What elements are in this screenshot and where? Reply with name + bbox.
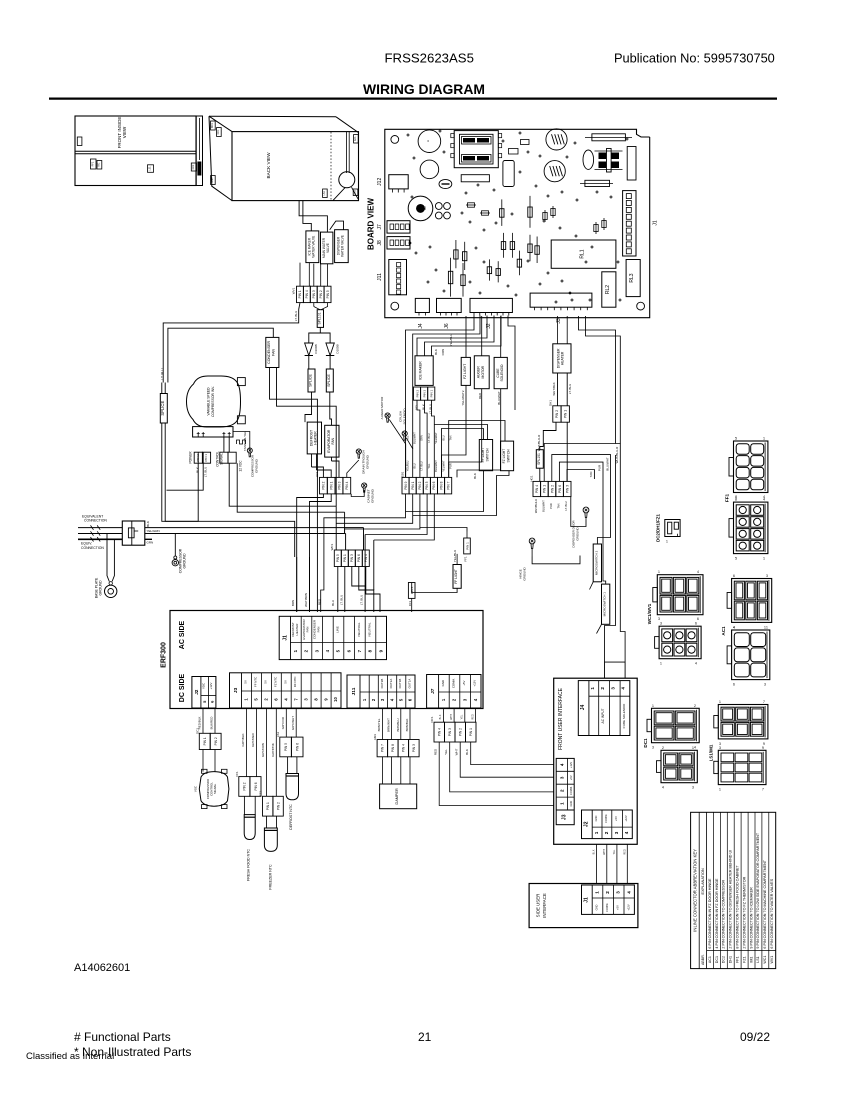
wires LD1 down [297, 494, 324, 612]
svg-text:1: 1 [666, 540, 668, 544]
base plate ground wires [107, 534, 109, 582]
svg-text:LS1: LS1 [756, 956, 760, 962]
light switch top wires [442, 429, 484, 478]
svg-text:HEATER: HEATER [561, 351, 565, 365]
svg-text:WV1: WV1 [211, 177, 214, 183]
FUI connector J2 table [582, 810, 633, 839]
svg-text:2: 2 [662, 746, 664, 750]
svg-text:PIN 2: PIN 2 [214, 737, 218, 745]
svg-text:TAN: TAN [589, 472, 593, 478]
svg-text:PIN 1: PIN 1 [465, 542, 469, 550]
ERF300 connector J7 table [427, 675, 481, 709]
svg-text:LT. BLU: LT. BLU [340, 595, 344, 605]
svg-text:PIN 2: PIN 2 [243, 782, 247, 790]
wires splices down [305, 392, 312, 422]
svg-text:PIN 4: PIN 4 [438, 728, 442, 736]
wires FUI to SUI [596, 844, 598, 883]
svg-text:2 PIN CONNECTION TO COMPRESSOR: 2 PIN CONNECTION TO COMPRESSOR [722, 880, 726, 949]
fresh food ntc wires [243, 796, 245, 814]
svg-text:ERF300: ERF300 [161, 642, 168, 668]
svg-text:DC SIDE: DC SIDE [179, 673, 186, 702]
svg-text:POWER: POWER [189, 451, 193, 464]
svg-text:AC SIDE: AC SIDE [179, 620, 186, 649]
svg-text:ORN: ORN [420, 435, 424, 441]
wires heater to LD1 [311, 454, 313, 467]
inline connector WC1/WV1 lower [659, 626, 701, 659]
svg-text:DC2: DC2 [195, 728, 199, 734]
svg-text:5V: 5V [244, 680, 248, 684]
svg-text:1: 1 [763, 437, 765, 441]
svg-text:2 PIN CONNECTION TO DISPENSER: 2 PIN CONNECTION TO DISPENSER HEATER BEH… [729, 850, 733, 949]
svg-text:COMPRESSOR INV.: COMPRESSOR INV. [211, 386, 215, 417]
svg-text:1: 1 [719, 788, 721, 792]
svg-text:4: 4 [733, 626, 735, 630]
svg-text:AC INPUT: AC INPUT [601, 709, 605, 724]
svg-text:FAN: FAN [272, 349, 276, 356]
svg-text:VALVE: VALVE [326, 243, 330, 253]
svg-text:J2: J2 [584, 821, 590, 827]
ff light wires [456, 554, 458, 565]
resistor pack [461, 175, 489, 182]
svg-text:PIN 6: PIN 6 [357, 554, 361, 562]
svg-text:FF1: FF1 [736, 956, 740, 962]
svg-text:YEL: YEL [427, 463, 431, 468]
svg-text:GRY/BLK: GRY/BLK [241, 734, 245, 747]
svg-text:GROUND: GROUND [370, 488, 374, 503]
svg-text:J4: J4 [580, 705, 586, 711]
svg-text:LT. BLU: LT. BLU [204, 467, 208, 477]
svg-text:WC1: WC1 [763, 956, 767, 964]
capacitor C8 [627, 147, 636, 181]
svg-text:3: 3 [560, 776, 565, 779]
water valve bottom wires [308, 263, 310, 287]
svg-text:4: 4 [695, 662, 697, 666]
svg-text:TAN: TAN [557, 503, 561, 508]
board extra parts [509, 149, 519, 155]
svg-text:J7: J7 [377, 224, 383, 230]
ff light switch [479, 440, 492, 471]
side user interface box [529, 884, 638, 928]
svg-text:PIN 1: PIN 1 [564, 410, 568, 418]
svg-text:OUT2B: OUT2B [380, 679, 384, 689]
splice SP2 [308, 369, 315, 392]
back view connector WC1 [211, 121, 216, 130]
svg-text:PIN 6: PIN 6 [558, 485, 562, 493]
svg-text:DISPENSER: DISPENSER [556, 348, 560, 368]
wires J3 to freezer ntc [265, 709, 267, 797]
board view outline [385, 129, 650, 317]
wires J3 down to EB1 right [508, 316, 515, 411]
svg-text:1: 1 [764, 626, 766, 630]
svg-text:RL3: RL3 [629, 273, 635, 282]
condenser fan wires down [270, 368, 318, 613]
svg-text:8 PIN CONNECTION TO FRESH FOOD: 8 PIN CONNECTION TO FRESH FOOD CABINET [736, 865, 740, 949]
svg-text:RL1: RL1 [580, 249, 586, 258]
svg-text:GND: GND [441, 680, 445, 686]
svg-text:BLK: BLK [593, 849, 596, 854]
svg-text:FAN: FAN [306, 627, 310, 633]
splice SP4 [536, 450, 543, 469]
svg-text:2: 2 [560, 789, 565, 792]
svg-text:INTERFACE: INTERFACE [542, 893, 547, 918]
svg-text:FZ1: FZ1 [742, 956, 746, 962]
relay RL3 [626, 260, 640, 297]
svg-text:PIN 4: PIN 4 [535, 485, 539, 493]
svg-text:4: 4 [697, 570, 699, 574]
connector J6 on board [437, 298, 462, 312]
svg-text:PIN 3: PIN 3 [350, 554, 354, 562]
main water valve [321, 232, 333, 264]
svg-text:IM1: IM1 [98, 162, 101, 167]
svg-text:A14062601: A14062601 [74, 962, 130, 974]
crush solenoid ground [402, 431, 407, 436]
svg-text:6 PIN CONNECTION IN FZ DOOR HI: 6 PIN CONNECTION IN FZ DOOR HINGE [708, 878, 712, 949]
freezer ntc wires [266, 816, 268, 828]
svg-text:YEL/WHT: YEL/WHT [434, 432, 438, 444]
svg-text:ICE MAKER: ICE MAKER [419, 361, 423, 380]
wire fz light to EB1 [442, 385, 467, 477]
evaporator fan [325, 425, 339, 457]
svg-text:1: 1 [660, 662, 662, 666]
svg-text:PIN 2: PIN 2 [459, 728, 463, 736]
svg-text:YEL/GRN: YEL/GRN [147, 529, 160, 533]
wire DH1 pin2 down [540, 422, 556, 450]
electrolytic capacitor C6 [544, 161, 565, 182]
svg-text:J1: J1 [282, 635, 288, 641]
svg-text:LS1: LS1 [149, 166, 152, 171]
wires J3 to defrost ntc [285, 709, 287, 738]
svg-text:6: 6 [733, 574, 735, 578]
svg-text:NEUTRAL: NEUTRAL [368, 622, 372, 636]
svg-text:PIN 2: PIN 2 [319, 290, 323, 298]
svg-text:RED: RED [434, 748, 438, 755]
svg-text:FAN: FAN [316, 627, 320, 633]
svg-text:FZ NTC: FZ NTC [273, 677, 277, 687]
svg-text:FZ1: FZ1 [259, 791, 263, 797]
svg-text:+12V: +12V [569, 762, 573, 768]
svg-text:RED: RED [623, 849, 626, 854]
wires ice maker pins to EB1 [417, 400, 420, 477]
svg-text:1: 1 [595, 891, 600, 894]
svg-text:FAN: FAN [331, 437, 335, 444]
svg-text:9: 9 [762, 746, 764, 750]
front view connector FF1 [91, 159, 97, 169]
svg-text:BLU/WHT: BLU/WHT [434, 460, 438, 472]
electrolytic capacitor C5 [546, 129, 567, 150]
svg-text:DH1: DH1 [549, 400, 553, 406]
svg-text:1: 1 [719, 700, 721, 704]
svg-text:PIN 4: PIN 4 [345, 481, 349, 489]
svg-text:D100B: D100B [336, 344, 340, 353]
ERF300 connector J3 table [230, 673, 342, 708]
svg-text:BLU/WHT: BLU/WHT [541, 500, 545, 512]
relay RL1 [551, 240, 616, 268]
svg-text:PIN 1: PIN 1 [266, 802, 270, 810]
drain trough ground [356, 449, 361, 454]
wires DC2 to VSC [202, 750, 204, 772]
fridge back view outline [209, 115, 336, 118]
svg-text:FF1: FF1 [235, 771, 239, 777]
ground leader lines [389, 420, 405, 478]
wires EB1 down to ERF300 [321, 494, 406, 612]
svg-text:J3: J3 [562, 814, 568, 820]
fui top stub [605, 662, 626, 678]
svg-text:OUT2A: OUT2A [389, 679, 393, 689]
svg-text:CUBE SOLENOID: CUBE SOLENOID [622, 703, 626, 729]
svg-text:EXPLANATION: EXPLANATION [701, 868, 705, 895]
svg-text:RED: RED [471, 714, 474, 719]
wires lights up to board [465, 316, 467, 357]
svg-text:AC1: AC1 [354, 136, 357, 141]
svg-text:+12V: +12V [209, 683, 213, 690]
svg-text:YEL/BLU: YEL/BLU [449, 334, 453, 346]
inductor L1 [607, 149, 612, 173]
svg-text:YEL/BLU: YEL/BLU [405, 461, 409, 472]
fridge front inside view outline [75, 116, 196, 186]
svg-text:YEL: YEL [444, 749, 448, 755]
svg-text:VARIABLE SPEED: VARIABLE SPEED [207, 387, 211, 416]
svg-text:BRN/YEL: BRN/YEL [377, 718, 381, 731]
svg-text:RL2: RL2 [605, 285, 611, 294]
svg-text:J12: J12 [377, 178, 383, 186]
wire auger to EB1 [449, 389, 482, 478]
svg-text:FRONT USER INTERFACE: FRONT USER INTERFACE [558, 687, 564, 750]
svg-text:4 PIN CONNECTION IN FZ DOOR HI: 4 PIN CONNECTION IN FZ DOOR HINGE [715, 878, 719, 949]
resistor R2 [580, 183, 613, 185]
svg-text:BLU/WHT: BLU/WHT [606, 457, 610, 471]
svg-text:LS1: LS1 [323, 190, 326, 195]
svg-text:OUT1B: OUT1B [398, 679, 402, 689]
connector J7 on board [387, 221, 410, 233]
transformer T1 [454, 131, 498, 168]
svg-text:1: 1 [692, 746, 694, 750]
ice maker pins [414, 387, 421, 400]
svg-text:ABBR.: ABBR. [701, 954, 705, 965]
board test point dots [407, 134, 409, 136]
cube solenoid [494, 357, 507, 388]
svg-text:J2: J2 [194, 689, 199, 695]
svg-text:YEL/BLK: YEL/BLK [453, 550, 457, 562]
svg-text:1: 1 [766, 625, 768, 629]
damper [380, 784, 417, 809]
svg-text:9 PIN CONNECTION TO LOW SIDE E: 9 PIN CONNECTION TO LOW SIDE EVAPORATOR … [756, 832, 760, 948]
svg-text:LD1: LD1 [315, 471, 319, 477]
svg-text:4: 4 [763, 498, 765, 502]
svg-text:OUT1A: OUT1A [407, 679, 411, 689]
svg-text:FF1: FF1 [91, 161, 95, 166]
svg-text:PIN 6: PIN 6 [432, 481, 436, 489]
svg-text:J6: J6 [444, 323, 450, 329]
svg-text:PIN 8: PIN 8 [391, 744, 395, 752]
defrost ntc wires [287, 757, 289, 774]
svg-text:PIN 5: PIN 5 [284, 743, 288, 751]
microswitch 1 [602, 584, 610, 624]
svg-text:RED/BLK: RED/BLK [198, 717, 202, 730]
svg-text:SIGNAL: SIGNAL [213, 783, 217, 794]
freezer ntc [264, 828, 277, 851]
svg-text:FRSS2623AS5: FRSS2623AS5 [385, 51, 474, 66]
svg-text:FF1: FF1 [464, 556, 468, 562]
front view connector LS1 [148, 165, 154, 173]
svg-text:HG1: HG1 [529, 475, 533, 482]
back view double line [346, 132, 348, 173]
wire cube solenoid down [457, 389, 501, 478]
svg-text:BLK: BLK [196, 467, 200, 473]
FUI connector J4 table [578, 681, 630, 736]
svg-text:J8: J8 [377, 240, 383, 246]
wires J3 to fresh food ntc [246, 709, 248, 777]
svg-text:HEATER: HEATER [295, 623, 299, 636]
capacitor C1 [418, 130, 441, 153]
dc1 stair wires to FUI J3 [471, 742, 554, 765]
wires J2 J3 down to EB1 [406, 316, 475, 478]
svg-text:LT. BLU: LT. BLU [294, 311, 298, 321]
svg-text:WC1: WC1 [211, 122, 214, 128]
svg-text:PIN 6: PIN 6 [254, 782, 258, 790]
svg-text:PIN 3: PIN 3 [448, 728, 452, 736]
svg-text:+5V: +5V [569, 775, 573, 780]
svg-text:FF LIGHT: FF LIGHT [454, 569, 458, 584]
svg-text:AC1: AC1 [721, 626, 726, 636]
buzzer [408, 196, 433, 221]
fresh food ntc [244, 815, 255, 840]
wires board J3 to right bundle [579, 316, 616, 444]
svg-text:WATER VALVE: WATER VALVE [341, 235, 345, 257]
svg-text:DC1: DC1 [430, 716, 434, 722]
svg-text:5: 5 [735, 437, 737, 441]
inline connector LS1/IM1 upper [718, 705, 768, 739]
svg-text:SPL101: SPL101 [537, 453, 541, 465]
svg-text:PUR: PUR [549, 503, 553, 509]
svg-text:WHT/BLK: WHT/BLK [552, 382, 556, 395]
light switch bottom wires [406, 471, 484, 512]
inline connector FF1 upper [734, 441, 768, 493]
svg-text:BLU: BLU [413, 463, 417, 468]
compressor inverter tabs [237, 378, 245, 386]
svg-text:PIN 2: PIN 2 [322, 481, 326, 489]
svg-text:VDC: VDC [202, 683, 206, 689]
svg-text:Publication No: 5995730750: Publication No: 5995730750 [614, 51, 775, 66]
capacitor C4 [503, 161, 514, 187]
wires to diodes [309, 327, 321, 342]
inline connector LS1/IM1 lower [718, 750, 766, 784]
svg-text:LT. BLU: LT. BLU [420, 461, 424, 470]
wire to compressor ground [174, 534, 176, 557]
connector J11 on board [389, 260, 407, 295]
compressor ground lug [174, 556, 177, 559]
svg-text:+5V: +5V [616, 905, 620, 910]
svg-text:6: 6 [733, 683, 735, 687]
ff light bottom wire [412, 583, 457, 593]
svg-text:PIN 3: PIN 3 [566, 485, 570, 493]
back view connector AC1 [354, 135, 359, 144]
ff1 pin 1 [464, 538, 471, 554]
svg-text:WC1: WC1 [330, 543, 334, 550]
compressor terminal box [193, 427, 233, 437]
svg-text:PIN 1: PIN 1 [330, 481, 334, 489]
svg-text:YEL: YEL [613, 849, 616, 854]
svg-text:CONNECTION: CONNECTION [84, 519, 107, 523]
svg-text:YEL: YEL [461, 714, 464, 719]
svg-text:CONDENSER: CONDENSER [267, 341, 271, 364]
svg-text:PIN 7: PIN 7 [381, 744, 385, 752]
dispenser heater wires [557, 316, 559, 344]
svg-text:INLINE CONNECTOR ABBREVIATION: INLINE CONNECTOR ABBREVIATION KEY [692, 849, 697, 932]
svg-text:DC2: DC2 [192, 164, 195, 169]
svg-text:J11: J11 [377, 273, 383, 281]
svg-text:GROUND: GROUND [99, 580, 103, 596]
connector J12 on board [389, 175, 408, 189]
splice SP3 [326, 369, 333, 392]
svg-text:GND: GND [569, 801, 573, 807]
dispenser heater [553, 344, 571, 373]
svg-text:SWITCH: SWITCH [485, 448, 489, 462]
svg-text:PIN 1: PIN 1 [343, 554, 347, 562]
fz light switch [501, 441, 514, 471]
svg-text:GRY/WHT: GRY/WHT [291, 716, 295, 730]
svg-text:PIN 5: PIN 5 [336, 554, 340, 562]
capacitor C3 [439, 179, 452, 188]
connector J8 on board [387, 237, 410, 249]
svg-text:5: 5 [735, 556, 737, 560]
svg-text:BLK: BLK [434, 349, 438, 355]
svg-text:MOTOR: MOTOR [481, 365, 485, 378]
svg-text:1: 1 [594, 831, 599, 834]
svg-text:SPLICE: SPLICE [327, 374, 331, 387]
auger motor ground [385, 413, 390, 418]
svg-text:GND: GND [594, 815, 598, 821]
svg-text:FRESH FOOD NTC: FRESH FOOD NTC [247, 849, 251, 881]
svg-text:BLK/RED: BLK/RED [210, 716, 214, 730]
svg-text:CONNECTION: CONNECTION [81, 546, 104, 550]
ff light [453, 565, 461, 589]
svg-text:3: 3 [652, 746, 654, 750]
svg-text:DEFROST NTC: DEFROST NTC [289, 804, 293, 830]
relay RL2 [602, 272, 616, 307]
svg-text:7: 7 [763, 700, 765, 704]
diode D100B right [326, 343, 334, 356]
auger motor [474, 356, 489, 389]
inline connector AC1 lower [732, 630, 770, 680]
inline connector FF1 lower [734, 502, 768, 553]
svg-text:3: 3 [764, 683, 766, 687]
connector J2 on board [470, 298, 512, 312]
connector J3 on board [530, 293, 592, 307]
svg-text:DC2: DC2 [722, 956, 726, 963]
control signal wires down [229, 463, 336, 506]
ice maker water valve [306, 231, 319, 263]
ERF300 connector J1 table [279, 616, 386, 659]
ff1 pin5 down [411, 598, 413, 612]
svg-text:3: 3 [719, 746, 721, 750]
svg-text:10: 10 [333, 697, 338, 702]
svg-text:DC1: DC1 [715, 956, 719, 963]
cabinet ground [362, 483, 367, 488]
ERF300 outline [170, 611, 483, 709]
svg-text:LT. BLU: LT. BLU [427, 433, 431, 442]
svg-text:GROUND: GROUND [522, 567, 526, 581]
svg-text:YEL/WHT2: YEL/WHT2 [461, 390, 465, 405]
svg-text:WHT: WHT [450, 714, 453, 720]
svg-text:GROUND: GROUND [183, 553, 187, 569]
svg-text:HEATER: HEATER [314, 431, 318, 445]
svg-text:VIEW: VIEW [122, 126, 127, 138]
svg-text:BZ: BZ [423, 206, 427, 210]
svg-text:PIN 2: PIN 2 [415, 390, 419, 398]
svg-text:YEL: YEL [415, 404, 419, 410]
svg-text:IM1: IM1 [749, 957, 753, 963]
svg-text:FREEZER NTC: FREEZER NTC [269, 864, 273, 890]
